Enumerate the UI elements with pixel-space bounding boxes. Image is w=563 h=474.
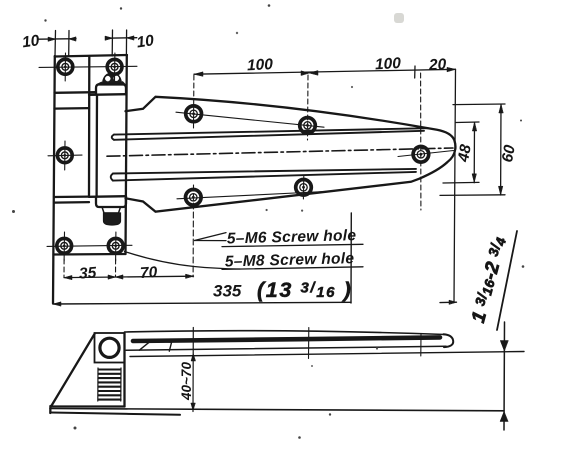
svg-text:100: 100 xyxy=(375,55,402,73)
svg-text:70: 70 xyxy=(139,264,158,282)
svg-text:35: 35 xyxy=(78,264,97,282)
svg-text:10: 10 xyxy=(21,32,41,51)
svg-text:1 3/16-2 3/4: 1 3/16-2 3/4 xyxy=(468,235,511,325)
svg-text:100: 100 xyxy=(247,56,274,74)
svg-text:20: 20 xyxy=(428,56,447,74)
svg-text:60: 60 xyxy=(499,143,519,163)
svg-text:(13 3/16 ): (13 3/16 ) xyxy=(257,278,352,302)
svg-text:335: 335 xyxy=(213,282,242,301)
svg-text:48: 48 xyxy=(455,143,475,164)
svg-text:5–M6 Screw hole: 5–M6 Screw hole xyxy=(227,227,357,247)
svg-text:5–M8 Screw hole: 5–M8 Screw hole xyxy=(225,250,355,270)
svg-text:40~70: 40~70 xyxy=(179,362,194,401)
svg-text:10: 10 xyxy=(136,32,156,51)
